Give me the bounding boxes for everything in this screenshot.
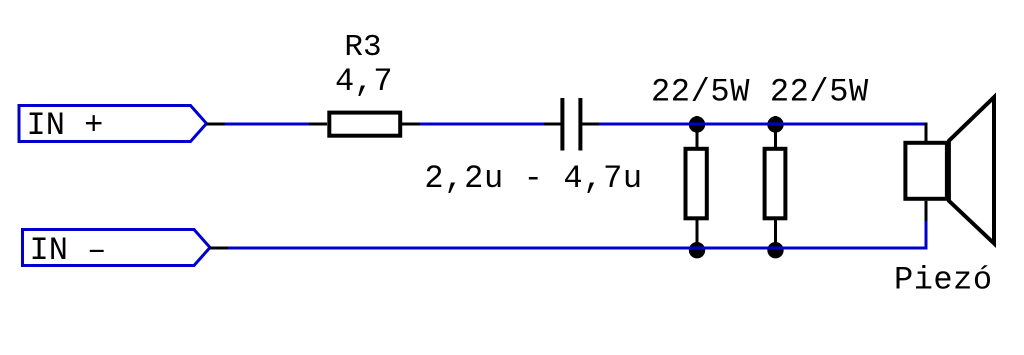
wire top rail: C to speaker bbox=[599, 123, 927, 126]
svg-text:2,2u - 4,7u: 2,2u - 4,7u bbox=[424, 160, 642, 197]
resistor Rb lead bottom bbox=[774, 220, 777, 249]
node dot top-right junction bbox=[767, 116, 783, 132]
resistor R3 body bbox=[329, 113, 400, 136]
svg-text:R3: R3 bbox=[344, 30, 381, 65]
resistor Rb body bbox=[765, 149, 786, 219]
svg-text:4,7: 4,7 bbox=[335, 63, 393, 100]
resistor R3 lead right bbox=[402, 123, 420, 126]
resistor Ra body bbox=[686, 149, 707, 219]
resistor Rb lead top bbox=[774, 116, 777, 148]
wire top rail: IN+ to R3 bbox=[225, 123, 311, 126]
speaker LS1 bottom stub bbox=[925, 201, 928, 221]
capacitor C1 lead right bbox=[582, 123, 600, 126]
node dot top-left junction bbox=[689, 116, 705, 132]
resistor Ra lead top bbox=[696, 116, 699, 148]
svg-text:Piezó: Piezó bbox=[894, 262, 993, 299]
speaker LS1 body bbox=[905, 143, 947, 199]
connector IN+ bbox=[19, 106, 207, 142]
svg-text:IN –: IN – bbox=[30, 232, 107, 269]
capacitor C1 lead left bbox=[544, 123, 561, 126]
wire stub from IN+ tip bbox=[207, 123, 226, 126]
wire speaker bottom vertical bbox=[925, 220, 928, 250]
wire top rail: R3 to C bbox=[418, 123, 546, 126]
connector IN- bbox=[23, 230, 211, 266]
capacitor C1 plate right bbox=[578, 98, 582, 151]
capacitor C1 plate left bbox=[560, 98, 564, 151]
speaker LS1 horn bbox=[949, 97, 994, 243]
wire overlay top rail over dots bbox=[599, 123, 927, 126]
svg-text:IN +: IN + bbox=[27, 107, 104, 144]
svg-text:22/5W 22/5W: 22/5W 22/5W bbox=[651, 74, 869, 111]
resistor Ra lead bottom bbox=[696, 220, 699, 249]
resistor R3 lead left bbox=[309, 123, 327, 126]
node dot bottom-right junction bbox=[767, 242, 783, 258]
wire bottom rail bbox=[228, 247, 928, 250]
node dot bottom-left junction bbox=[689, 242, 705, 258]
wire overlay bottom rail over dots bbox=[228, 247, 928, 250]
speaker LS1 top stub bbox=[925, 123, 928, 142]
wire stub from IN- tip bbox=[210, 247, 228, 250]
